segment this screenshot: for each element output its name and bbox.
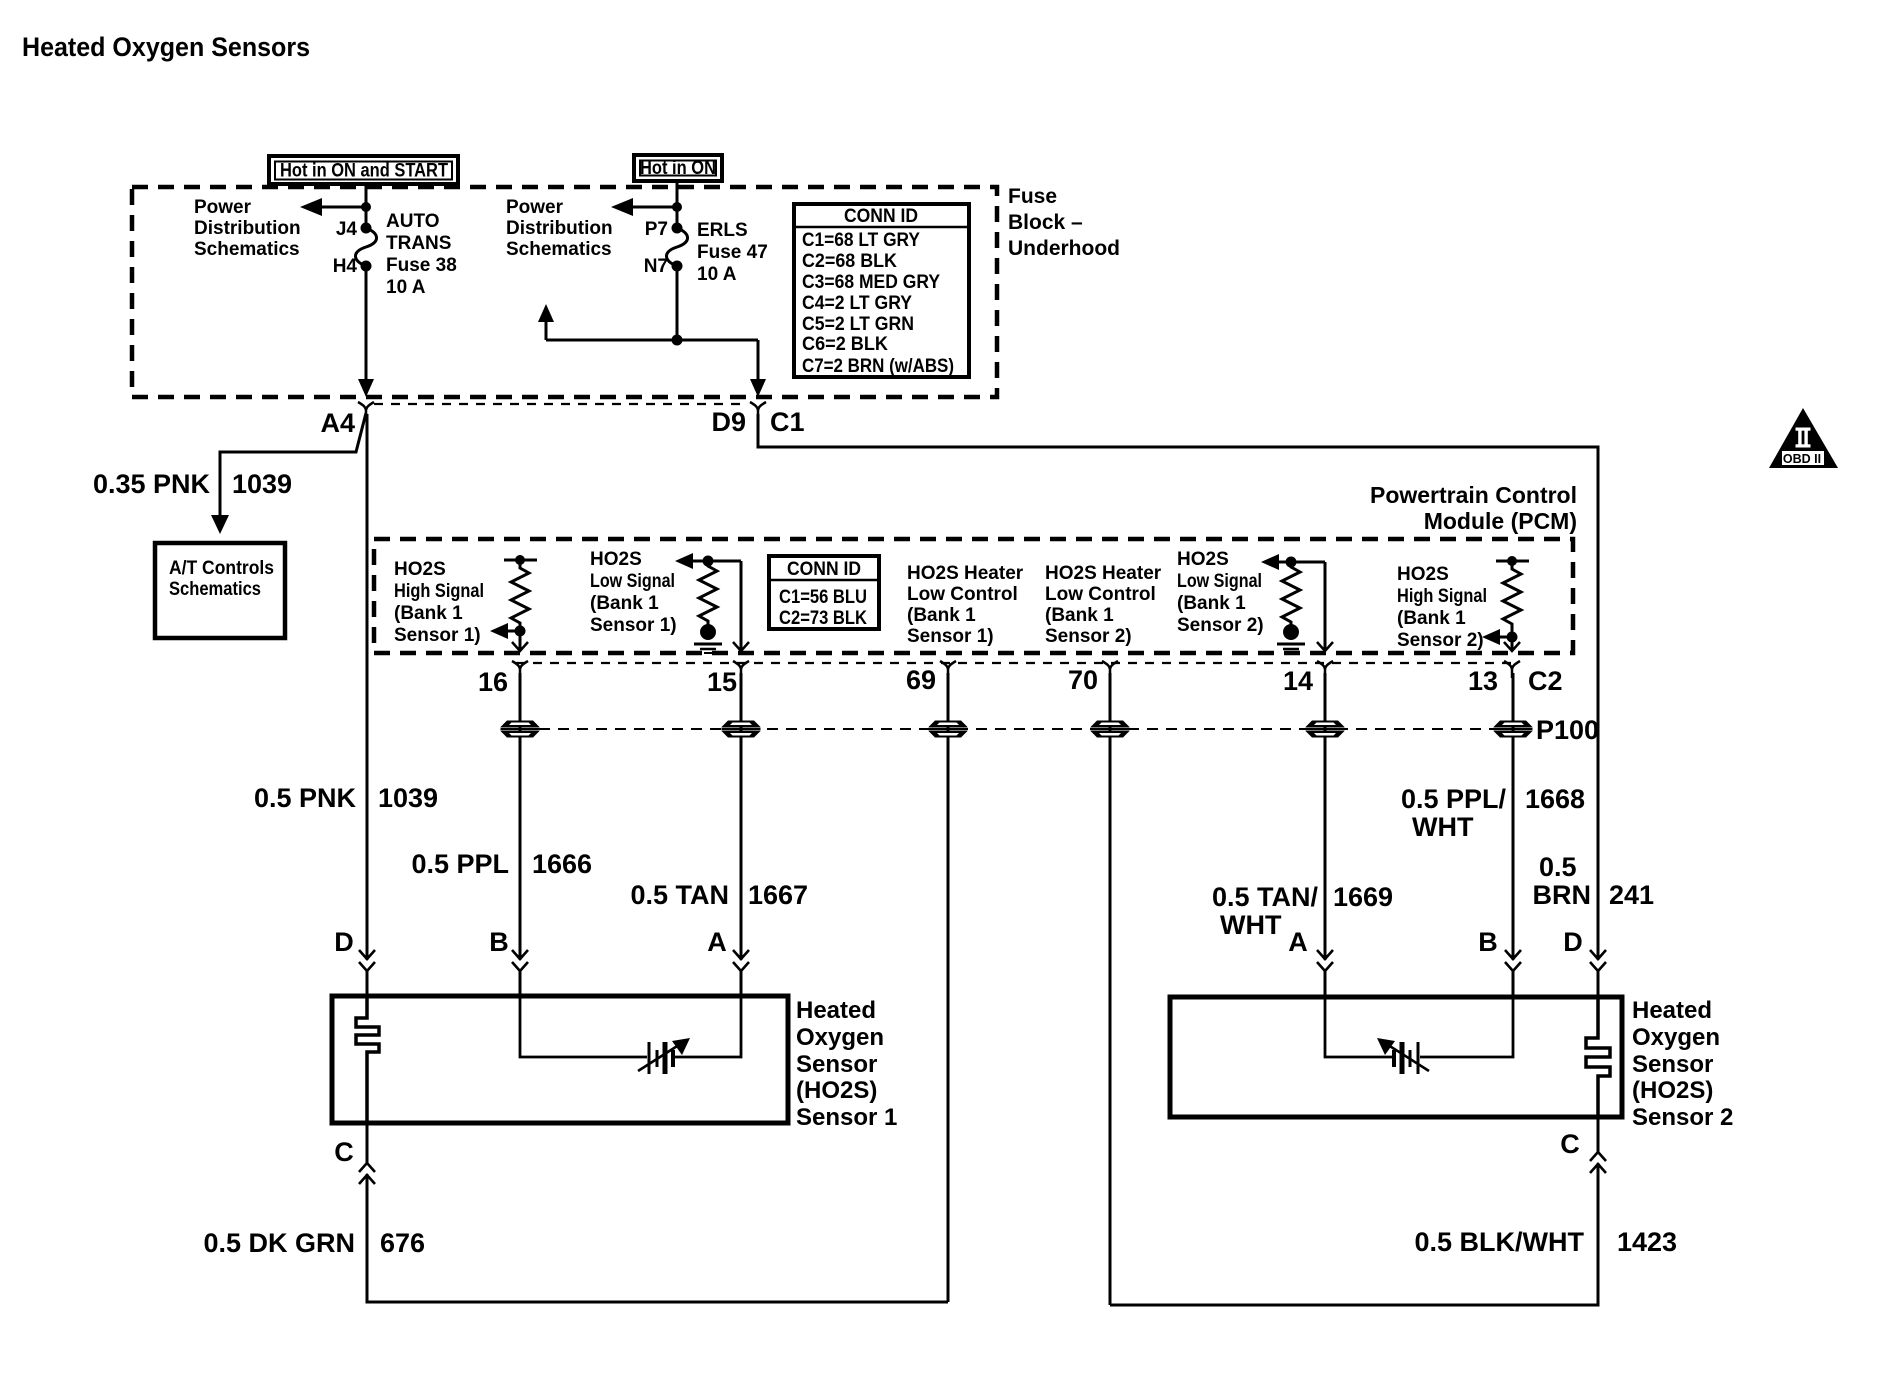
label: Heated Oxygen Sensor (HO2S) Sensor 2 xyxy=(1632,997,1733,1131)
svg-text:70: 70 xyxy=(1068,665,1098,695)
connector pin fork 15 xyxy=(733,661,749,678)
svg-text:High Signal: High Signal xyxy=(1397,586,1487,607)
svg-text:C2=68 BLK: C2=68 BLK xyxy=(802,251,897,272)
svg-text:B: B xyxy=(489,927,509,957)
connector pin fork 13 xyxy=(1504,661,1520,678)
connector table: CONN ID (PCM) xyxy=(769,556,879,629)
wire arrows into sensor2 B xyxy=(1505,950,1521,971)
connector face dashed line (C1 row) xyxy=(374,403,748,405)
svg-text:0.5 TAN/: 0.5 TAN/ xyxy=(1212,882,1319,912)
svg-text:Distribution: Distribution xyxy=(194,218,301,239)
fuse F47 element (ERLS Fuse 47 10A) xyxy=(666,228,687,266)
svg-text:Sensor 1: Sensor 1 xyxy=(796,1104,897,1131)
node: R1 bottom junction with internal arrow xyxy=(490,623,526,639)
wire arrows into sensor1 A xyxy=(733,950,749,971)
node: junction ERLS feed split xyxy=(672,335,683,346)
node: P7 xyxy=(672,223,683,234)
svg-text:ERLS: ERLS xyxy=(697,220,748,241)
label: Fuse Block - Underhood xyxy=(1008,185,1120,260)
svg-text:1669: 1669 xyxy=(1333,882,1393,912)
wire: sensor1 C down and over to pin69 wire (0.5 DK GRN 676) xyxy=(367,1123,948,1302)
svg-text:0.5 PNK: 0.5 PNK xyxy=(254,783,357,813)
node: R4 bottom junction with internal arrow xyxy=(1482,629,1518,645)
reference box: A/T Controls Schematics xyxy=(155,543,285,638)
node: H4 xyxy=(361,261,372,272)
svg-text:Sensor 1): Sensor 1) xyxy=(590,615,677,636)
svg-text:(Bank 1: (Bank 1 xyxy=(590,593,659,614)
svg-text:C: C xyxy=(1560,1129,1580,1159)
svg-text:15: 15 xyxy=(707,667,737,697)
wire: up arrow stub (to other circuit) xyxy=(538,304,554,340)
resistor R2: HO2S low signal bank1 sensor1 with internal arrow xyxy=(675,553,741,626)
wire: D9/C1 to right rail over to sensor2 terminal D xyxy=(758,414,1598,997)
svg-text:C3=68 MED GRY: C3=68 MED GRY xyxy=(802,272,940,293)
svg-text:1039: 1039 xyxy=(378,783,438,813)
svg-text:Fuse 38: Fuse 38 xyxy=(386,255,457,276)
connector pin fork at A4 xyxy=(358,402,374,419)
svg-text:Sensor 2): Sensor 2) xyxy=(1045,626,1132,647)
inline connector P100 on pin70 wire xyxy=(1091,721,1130,738)
svg-text:Power: Power xyxy=(506,197,564,218)
wire: N7 down to junction xyxy=(676,266,679,340)
svg-text:C: C xyxy=(334,1137,354,1167)
svg-text:Distribution: Distribution xyxy=(506,218,613,239)
node: junction at fuse 47 feed xyxy=(672,202,682,212)
svg-text:A: A xyxy=(707,927,727,957)
wire: sensor1 B internal lead xyxy=(520,996,647,1057)
wire: pin 16 down to sensor1 terminal B xyxy=(519,673,522,996)
oxygen sensing element (sensor2): plates with arrow xyxy=(1377,1038,1429,1074)
svg-text:A: A xyxy=(1288,927,1308,957)
svg-text:13: 13 xyxy=(1468,666,1498,696)
svg-text:B: B xyxy=(1478,927,1498,957)
node: junction at fuse 38 feed xyxy=(361,202,371,212)
svg-text:10 A: 10 A xyxy=(386,277,426,298)
svg-text:Powertrain Control: Powertrain Control xyxy=(1370,482,1577,508)
svg-text:Sensor 1): Sensor 1) xyxy=(907,626,994,647)
svg-text:0.5: 0.5 xyxy=(1539,852,1577,882)
svg-text:Heated: Heated xyxy=(1632,997,1712,1024)
svg-text:Schematics: Schematics xyxy=(169,579,261,600)
label: AUTO TRANS Fuse 38 10 A xyxy=(386,211,457,298)
svg-text:Low Control: Low Control xyxy=(1045,584,1156,605)
power label box: Hot in ON xyxy=(634,155,722,181)
connector pin fork 14 xyxy=(1317,661,1333,678)
svg-text:0.5 BLK/WHT: 0.5 BLK/WHT xyxy=(1414,1227,1584,1257)
svg-text:Fuse 47: Fuse 47 xyxy=(697,242,768,263)
wire arrows out of sensor1 C xyxy=(359,1163,375,1184)
svg-text:N7: N7 xyxy=(644,256,668,277)
svg-text:High Signal: High Signal xyxy=(394,581,484,602)
connector pin fork 69 xyxy=(940,661,956,678)
svg-text:0.5 PPL/: 0.5 PPL/ xyxy=(1401,784,1507,814)
svg-text:Sensor: Sensor xyxy=(796,1051,877,1078)
wire arrows into sensor2 D xyxy=(1590,950,1606,971)
wire: A4 down to sensor1 terminal D xyxy=(366,414,369,996)
wire: drop to connector D9 (arrow) xyxy=(750,340,766,397)
svg-text:A4: A4 xyxy=(320,408,355,438)
svg-text:Oxygen: Oxygen xyxy=(1632,1024,1720,1051)
svg-text:1667: 1667 xyxy=(748,880,808,910)
svg-text:HO2S: HO2S xyxy=(1177,549,1229,570)
svg-text:C5=2 LT GRN: C5=2 LT GRN xyxy=(802,314,914,335)
svg-text:CONN ID: CONN ID xyxy=(844,206,918,227)
svg-text:Hot in ON: Hot in ON xyxy=(640,157,716,179)
svg-text:CONN ID: CONN ID xyxy=(787,559,861,580)
svg-text:HO2S: HO2S xyxy=(590,549,642,570)
svg-text:Power: Power xyxy=(194,197,252,218)
svg-text:1666: 1666 xyxy=(532,849,592,879)
wire label: 0.5 TAN/ WHT xyxy=(1212,882,1319,940)
svg-text:P100: P100 xyxy=(1536,715,1599,745)
fuse F38 element (AUTO TRANS Fuse 38 10A) xyxy=(355,228,376,266)
svg-text:Module (PCM): Module (PCM) xyxy=(1424,508,1577,534)
svg-text:676: 676 xyxy=(380,1228,425,1258)
connector table: CONN ID (fuse block) xyxy=(794,204,969,377)
label: Heated Oxygen Sensor (HO2S) Sensor 1 xyxy=(796,997,897,1131)
svg-text:Heated: Heated xyxy=(796,997,876,1024)
power label box: Hot in ON and START xyxy=(269,156,458,184)
svg-text:Oxygen: Oxygen xyxy=(796,1024,884,1051)
OBD II emissions symbol xyxy=(1769,408,1838,468)
wire: R2 top over to pin 15 (open arrow at connector) xyxy=(733,561,749,651)
svg-text:TRANS: TRANS xyxy=(386,233,451,254)
inline connector P100 on pin16 wire xyxy=(501,721,540,738)
svg-text:D: D xyxy=(334,927,354,957)
label: ERLS Fuse 47 10 A xyxy=(697,220,768,285)
svg-text:1423: 1423 xyxy=(1617,1227,1677,1257)
svg-text:16: 16 xyxy=(478,667,508,697)
connector pin fork at D9 xyxy=(750,402,766,419)
wire arrows into sensor1 D xyxy=(359,950,375,971)
resistor R3: HO2S low signal bank1 sensor2 with internal arrow xyxy=(1261,554,1325,626)
svg-text:(Bank 1: (Bank 1 xyxy=(907,605,976,626)
label: Power Distribution Schematics (right) xyxy=(506,197,613,260)
svg-text:1039: 1039 xyxy=(232,469,292,499)
svg-text:Underhood: Underhood xyxy=(1008,237,1120,260)
svg-text:C7=2 BRN (w/ABS): C7=2 BRN (w/ABS) xyxy=(802,356,954,377)
svg-text:Sensor 2: Sensor 2 xyxy=(1632,1104,1733,1131)
wire arrows into sensor2 A xyxy=(1317,950,1333,971)
wire: R1 to pin 16 (open arrow at connector) xyxy=(512,631,528,651)
PCM dashed enclosure xyxy=(374,539,1573,653)
svg-text:WHT: WHT xyxy=(1412,812,1474,842)
svg-text:1668: 1668 xyxy=(1525,784,1585,814)
wire: sensor2 C down and over to pin70 wire (0.5 BLK/WHT 1423) xyxy=(1110,1117,1598,1305)
svg-text:0.5 TAN: 0.5 TAN xyxy=(630,880,729,910)
wire: R4 to pin 13 (open arrow at connector) xyxy=(1504,637,1520,651)
ground: R3 internal ground xyxy=(1277,624,1305,653)
component box: Heated Oxygen Sensor (HO2S) Sensor 1 xyxy=(332,996,788,1123)
svg-text:C6=2 BLK: C6=2 BLK xyxy=(802,334,888,355)
fuse block dashed enclosure: Fuse Block - Underhood xyxy=(132,187,997,397)
svg-text:0.5 DK GRN: 0.5 DK GRN xyxy=(203,1228,355,1258)
wire: from Hot in ON and START box down to J4 xyxy=(365,183,368,228)
inline connector P100 on pin13 wire xyxy=(1494,721,1533,738)
svg-text:BRN: BRN xyxy=(1533,880,1592,910)
node: J4 xyxy=(361,223,372,234)
svg-text:A/T Controls: A/T Controls xyxy=(169,558,274,579)
inline connector P100 on pin14 wire xyxy=(1306,721,1345,738)
svg-text:P7: P7 xyxy=(645,219,668,240)
inline connector P100 on pin15 wire xyxy=(722,721,761,738)
svg-text:(HO2S): (HO2S) xyxy=(796,1077,877,1104)
svg-text:(Bank 1: (Bank 1 xyxy=(394,603,463,624)
connector pin fork 70 xyxy=(1102,661,1118,678)
connector face dashed line (PCM C1/C2 row) xyxy=(516,662,1516,664)
svg-text:(Bank 1: (Bank 1 xyxy=(1045,605,1114,626)
wire arrows out of sensor2 C xyxy=(1590,1152,1606,1173)
svg-text:C1=68 LT GRY: C1=68 LT GRY xyxy=(802,230,920,251)
wire: branch from A4 wire to A/T Controls (0.35 PNK 1039) xyxy=(220,413,366,515)
svg-text:Schematics: Schematics xyxy=(506,239,612,260)
svg-text:D9: D9 xyxy=(711,407,746,437)
wire: pin 69 down to sensor1 ground loop xyxy=(947,673,950,1302)
svg-text:HO2S Heater: HO2S Heater xyxy=(907,563,1024,584)
svg-text:Block –: Block – xyxy=(1008,211,1083,234)
svg-text:C2=73 BLK: C2=73 BLK xyxy=(779,608,867,629)
resistor R4: HO2S high signal bank1 sensor2 xyxy=(1496,556,1529,637)
svg-text:(Bank 1: (Bank 1 xyxy=(1397,608,1466,629)
svg-text:241: 241 xyxy=(1609,880,1654,910)
svg-text:C4=2 LT GRY: C4=2 LT GRY xyxy=(802,293,912,314)
svg-text:HO2S: HO2S xyxy=(394,559,446,580)
svg-text:H4: H4 xyxy=(333,256,358,277)
svg-text:AUTO: AUTO xyxy=(386,211,439,232)
svg-text:(Bank 1: (Bank 1 xyxy=(1177,593,1246,614)
svg-text:Sensor 2): Sensor 2) xyxy=(1177,615,1264,636)
svg-text:WHT: WHT xyxy=(1220,910,1282,940)
label: HO2S Heater Low Control (Bank 1 Sensor 2) xyxy=(1045,563,1162,647)
wire arrows into sensor1 B xyxy=(512,950,528,971)
svg-text:0.5 PPL: 0.5 PPL xyxy=(411,849,509,879)
svg-text:C2: C2 xyxy=(1528,666,1563,696)
resistor R1: HO2S high signal bank1 sensor1 xyxy=(504,555,537,631)
wire: branch to Power Distribution right (left arrow) xyxy=(611,198,677,216)
node: N7 xyxy=(672,261,683,272)
svg-text:Low Signal: Low Signal xyxy=(590,571,675,592)
svg-text:Sensor: Sensor xyxy=(1632,1051,1713,1078)
svg-text:OBD II: OBD II xyxy=(1783,452,1821,466)
label: HO2S Heater Low Control (Bank 1 Sensor 1) xyxy=(907,563,1024,647)
svg-text:J4: J4 xyxy=(336,219,358,240)
svg-text:Low Control: Low Control xyxy=(907,584,1018,605)
svg-text:Hot in ON and START: Hot in ON and START xyxy=(280,160,448,182)
harness connector P100 dashed tie line xyxy=(520,728,1513,730)
wire: pin 15 down to sensor1 terminal A xyxy=(740,673,743,996)
wire: H4 down to connector A4 (arrow into PCM feed) xyxy=(358,266,374,397)
svg-text:Fuse: Fuse xyxy=(1008,185,1057,208)
wire: junction horizontal run to D9 drop xyxy=(546,339,758,342)
wire: R3 top over to pin 14 (open arrow at connector) xyxy=(1317,562,1333,651)
svg-text:HO2S Heater: HO2S Heater xyxy=(1045,563,1162,584)
svg-text:Low Signal: Low Signal xyxy=(1177,571,1262,592)
svg-text:69: 69 xyxy=(906,665,936,695)
connector pin fork 16 xyxy=(512,661,528,678)
label: HO2S Low Signal (Bank 1 Sensor 2) xyxy=(1177,549,1264,636)
wire: pin 13 down to sensor2 terminal B xyxy=(1512,673,1515,997)
label: HO2S Low Signal (Bank 1 Sensor 1) xyxy=(590,549,677,636)
wire: sensor2 A internal lead xyxy=(1325,997,1392,1057)
label: Powertrain Control Module (PCM) xyxy=(1370,482,1577,534)
svg-text:HO2S: HO2S xyxy=(1397,564,1449,585)
wire: sensor1 A internal lead xyxy=(675,996,741,1057)
svg-text:D: D xyxy=(1563,927,1583,957)
svg-text:0.35 PNK: 0.35 PNK xyxy=(93,469,211,499)
heater element (sensor2) xyxy=(1586,997,1610,1117)
svg-text:Schematics: Schematics xyxy=(194,239,300,260)
svg-text:(HO2S): (HO2S) xyxy=(1632,1077,1713,1104)
wire arrow into A/T Controls box xyxy=(211,515,229,534)
label: Power Distribution Schematics (left) xyxy=(194,197,301,260)
label: HO2S High Signal (Bank 1 Sensor 2) xyxy=(1397,564,1487,651)
svg-text:10 A: 10 A xyxy=(697,264,737,285)
ground: R2 internal ground xyxy=(694,624,722,653)
wire label: 0.5 BRN xyxy=(1533,852,1592,910)
label: HO2S High Signal (Bank 1 Sensor 1) xyxy=(394,559,484,646)
heater element (sensor1) xyxy=(356,996,379,1123)
wire: pin 14 down to sensor2 terminal A xyxy=(1324,673,1327,997)
wire: pin 70 down to sensor2 ground loop xyxy=(1109,673,1112,1305)
wire: branch to Power Distribution (left arrow) xyxy=(300,198,366,216)
svg-text:C1: C1 xyxy=(770,407,805,437)
svg-text:14: 14 xyxy=(1283,666,1313,696)
wire: sensor2 B internal lead xyxy=(1420,997,1513,1057)
svg-text:Heated Oxygen Sensors: Heated Oxygen Sensors xyxy=(22,32,310,62)
svg-text:Sensor 1): Sensor 1) xyxy=(394,625,481,646)
svg-text:Sensor 2): Sensor 2) xyxy=(1397,630,1484,651)
wire label: 0.5 PPL/ WHT xyxy=(1401,784,1507,842)
component box: Heated Oxygen Sensor (HO2S) Sensor 2 xyxy=(1170,997,1622,1117)
svg-text:C1=56 BLU: C1=56 BLU xyxy=(779,587,867,608)
inline connector P100 on pin69 wire xyxy=(929,721,968,738)
wire: from Hot in ON box down to P7 xyxy=(676,180,679,228)
oxygen sensing element (sensor1): plates with arrow xyxy=(638,1038,690,1074)
